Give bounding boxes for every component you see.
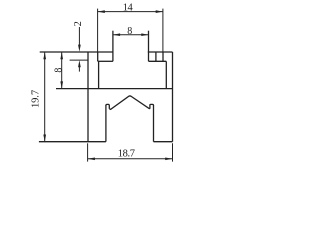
- right chamber divider 1: [155, 52, 157, 61]
- arrow 14 left: [98, 10, 105, 13]
- arrow 8 top left: [113, 33, 120, 36]
- left leg bottom (with reference line): [39, 141, 106, 143]
- arrow 19.7 bottom: [43, 135, 46, 142]
- dim 2 lower arrow shaft: [78, 66, 80, 72]
- left slot wall with extension line: [112, 31, 114, 62]
- chevron roof: [109, 96, 150, 109]
- dim 14 extension right: [162, 9, 164, 52]
- arrow 2 up: [78, 60, 81, 67]
- right ledge: [149, 60, 167, 62]
- arrow 8 top right: [141, 33, 148, 36]
- right cavity wall: [165, 61, 167, 88]
- svg-text:2: 2: [73, 21, 84, 26]
- dim 8 top line: [113, 34, 149, 36]
- right slot wall with extension line: [148, 31, 150, 62]
- right tooth: [150, 104, 154, 108]
- left tooth: [106, 104, 109, 108]
- right chamber divider 2: [162, 52, 164, 61]
- left leg inner wall: [105, 105, 107, 142]
- left chamber left wall: [97, 52, 99, 61]
- left cavity wall: [98, 61, 100, 88]
- arrow 8 left bottom: [60, 81, 63, 88]
- svg-text:18.7: 18.7: [118, 149, 135, 160]
- profile outer right wall: [172, 52, 174, 142]
- left ledge: [98, 60, 113, 62]
- profile top surface right segment: [148, 51, 173, 53]
- arrow 8 left top: [60, 52, 63, 59]
- svg-text:8: 8: [127, 26, 132, 37]
- svg-text:19.7: 19.7: [30, 90, 41, 108]
- svg-text:14: 14: [123, 3, 134, 14]
- arrow 14 right: [156, 10, 163, 13]
- arrow 19.7 top: [43, 52, 46, 59]
- dim 18.7 line: [88, 158, 173, 160]
- arrow 2 down: [78, 45, 81, 52]
- dim 18.7 extension left: [87, 143, 89, 161]
- arrow 18.7 right: [165, 157, 172, 160]
- right leg inner wall: [153, 105, 155, 142]
- svg-text:8: 8: [53, 68, 64, 73]
- profile outer left wall: [87, 52, 89, 142]
- profile top surface left segment (also dim reference line): [40, 51, 113, 53]
- dim 8 left line: [61, 52, 63, 89]
- cavity floor line (also 8-dim reference stub): [56, 88, 173, 90]
- right leg bottom: [154, 141, 173, 143]
- dim 2 lower reference stub: [70, 59, 88, 61]
- dim 2 upper arrow shaft: [78, 27, 80, 45]
- dim 14 line: [98, 11, 163, 13]
- arrow 18.7 left: [88, 157, 95, 160]
- dim 19.7 line: [44, 52, 46, 142]
- dim 18.7 extension right: [172, 143, 174, 161]
- dim 14 extension left: [97, 9, 99, 52]
